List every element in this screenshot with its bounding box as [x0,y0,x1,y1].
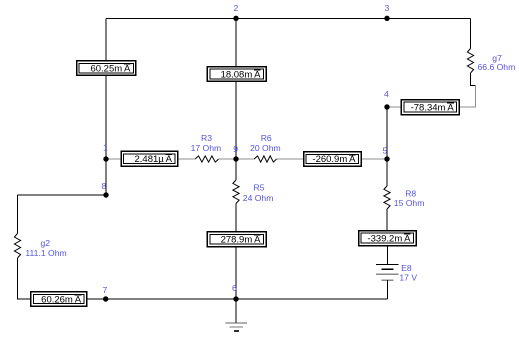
svg-text:-78.34m A: -78.34m A [411,103,455,114]
svg-text:60.26m A: 60.26m A [41,294,82,305]
wire top rail node2-node3 [106,17,471,19]
ammeter 60.26mA [31,292,87,307]
wire gray R3 to node 9 [219,158,236,160]
ground stub [235,299,237,323]
wire gray jog down to ammeter -78.34mA [459,86,475,107]
wire bottom rail meter 60.26mA to battery [87,298,388,300]
wire gray node 9 to R6 [236,158,254,160]
wire gray R6 to ammeter -260.9mA [277,158,304,160]
wire ammeter 278.9mA to node 6 [235,247,237,300]
node 7 junction dot [103,296,108,301]
svg-text:18.08m A: 18.08m A [221,69,262,80]
svg-text:5: 5 [383,146,388,156]
svg-text:R3: R3 [201,133,212,143]
svg-text:R6: R6 [261,133,272,143]
ammeter -260.9mA [304,152,361,166]
svg-text:2.481µ A: 2.481µ A [135,154,173,165]
wire ammeter -339.2mA to battery E8 [387,246,389,265]
ammeter 18.08mA [207,67,266,82]
wire node 9 down to R5 [235,159,237,180]
svg-text:-260.9m A: -260.9m A [312,154,356,165]
svg-text:4: 4 [384,89,389,99]
wire middle column top [235,18,237,67]
wire gray ammeter -260.9mA to node 5 [361,158,387,160]
ammeter 278.9mA [207,232,266,247]
svg-text:20 Ohm: 20 Ohm [250,143,281,153]
svg-text:6: 6 [232,283,237,293]
svg-text:1: 1 [103,143,108,153]
wire battery to bottom rail [387,280,389,299]
node 4 junction dot [384,104,389,109]
resistor g7 zigzag [467,49,473,74]
svg-text:278.9m A: 278.9m A [221,234,262,245]
wire R5 to ammeter 278.9mA [235,204,237,233]
ammeter -78.34mA [401,100,459,115]
node 5 junction dot [384,156,389,161]
svg-text:7: 7 [103,285,108,295]
resistor g2 zigzag [14,234,20,259]
wire node 8 to left [18,194,107,196]
ground symbol [225,323,247,331]
node 1 junction dot [103,156,108,161]
svg-text:66.6 Ohm: 66.6 Ohm [478,62,516,72]
svg-text:3: 3 [385,3,390,13]
svg-text:15 Ohm: 15 Ohm [394,198,425,208]
ammeter -339.2mA [359,231,416,246]
node 2 junction dot [233,16,238,21]
resistor R8 zigzag [384,186,390,209]
ammeter 2.481uA [121,151,178,166]
battery E8 plates [376,265,398,281]
svg-text:g2: g2 [41,238,51,248]
svg-text:111.1 Ohm: 111.1 Ohm [25,248,66,258]
wire middle column meter to node 9 [235,81,237,159]
svg-text:R8: R8 [405,188,416,198]
node 3 junction dot [384,16,389,21]
wire node 5 down to R8 [386,159,388,186]
wire g7 branch down from rail [470,18,472,48]
wire gray node1 to ammeter 2.481uA [106,158,121,160]
wire node4 to node5 [386,107,388,159]
svg-text:17 Ohm: 17 Ohm [191,143,222,153]
wire g2 down to bottom [18,258,31,299]
resistor R6 zigzag [254,156,276,162]
svg-text:-339.2m A: -339.2m A [367,234,411,245]
wire far-left down to g2 [17,195,19,234]
wire left column meter to node 1 and node 8 [105,75,107,195]
node 6 junction dot [233,296,238,301]
svg-text:60.25m A: 60.25m A [90,63,131,74]
node 9 junction dot [233,156,238,161]
resistor R5 zigzag [233,180,239,204]
svg-text:9: 9 [233,144,238,154]
svg-text:2: 2 [234,3,239,13]
node 8 junction dot [103,192,108,197]
resistor R3 zigzag [195,156,218,162]
wire gray node4 to ammeter -78.34mA [387,106,401,108]
wire left column top [105,18,107,61]
svg-text:17 V: 17 V [399,272,417,282]
ammeter 60.25mA [77,61,136,76]
svg-text:24 Ohm: 24 Ohm [243,193,274,203]
wire gray ammeter 2.481uA to R3 [178,158,196,160]
wire R8 to ammeter -339.2mA [386,209,388,231]
wire g7 lower lead with jog [471,73,476,86]
svg-text:8: 8 [102,181,107,191]
svg-text:R5: R5 [254,183,265,193]
